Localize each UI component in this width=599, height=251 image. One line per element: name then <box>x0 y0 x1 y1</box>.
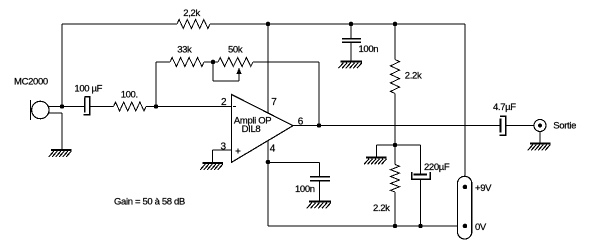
svg-text:100.: 100. <box>121 90 138 101</box>
svg-text:100n: 100n <box>295 184 315 195</box>
svg-text:4: 4 <box>270 143 276 154</box>
svg-text:2,2k: 2,2k <box>183 8 200 19</box>
svg-text:2.2k: 2.2k <box>405 70 422 81</box>
svg-text:Sortie: Sortie <box>553 121 576 132</box>
svg-text:3: 3 <box>221 141 227 152</box>
svg-text:7: 7 <box>271 97 277 108</box>
svg-text:100 µF: 100 µF <box>74 83 102 94</box>
svg-text:2: 2 <box>221 97 227 108</box>
svg-text:100n: 100n <box>359 44 379 55</box>
svg-text:MC2000: MC2000 <box>14 77 48 88</box>
svg-text:0V: 0V <box>475 222 487 233</box>
svg-text:DIL8: DIL8 <box>242 124 261 135</box>
svg-text:+9V: +9V <box>475 183 492 194</box>
svg-text:33k: 33k <box>177 44 192 55</box>
svg-text:4.7µF: 4.7µF <box>493 102 516 113</box>
svg-text:50k: 50k <box>228 44 243 55</box>
svg-text:2.2k: 2.2k <box>373 203 390 214</box>
svg-text:Gain = 50 à 58 dB: Gain = 50 à 58 dB <box>114 196 185 207</box>
svg-text:220µF: 220µF <box>424 162 450 173</box>
